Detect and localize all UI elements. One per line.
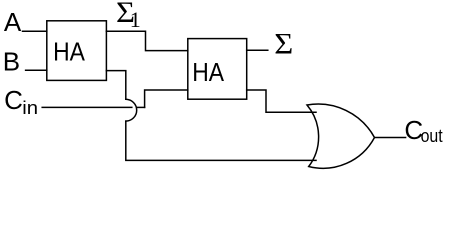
wire Cin net horizontal right of hop xyxy=(137,106,145,108)
wire OR output xyxy=(375,137,406,139)
svg-text:out: out xyxy=(421,126,443,146)
wire Cin net up into HA2 bottom input xyxy=(145,90,188,107)
svg-text:HA: HA xyxy=(53,37,85,67)
svg-text:HA: HA xyxy=(192,57,224,87)
wire HA2 sum out xyxy=(247,49,268,51)
wire HA2 carry out to OR top input xyxy=(247,90,316,112)
svg-text:Σ: Σ xyxy=(274,27,293,60)
wire below hop to OR bottom input xyxy=(126,121,316,160)
svg-text:A: A xyxy=(4,7,22,37)
half adder HA2 box xyxy=(188,39,247,100)
svg-text:C: C xyxy=(4,85,23,115)
svg-text:in: in xyxy=(22,98,38,118)
or-gate body xyxy=(307,104,375,168)
svg-text:B: B xyxy=(3,47,20,77)
wire HA1 carry out, down to OR gate xyxy=(106,71,125,100)
wire B input xyxy=(26,69,47,71)
half adder HA1 box xyxy=(47,21,107,81)
wire Cin net horizontal left of hop xyxy=(42,106,132,108)
wire sigma1 net: HA1 sum out to HA2 top input xyxy=(106,31,187,50)
svg-text:1: 1 xyxy=(130,7,141,32)
wire A input xyxy=(23,30,47,32)
wire hop over Cin (crossing bridge) xyxy=(126,99,137,121)
